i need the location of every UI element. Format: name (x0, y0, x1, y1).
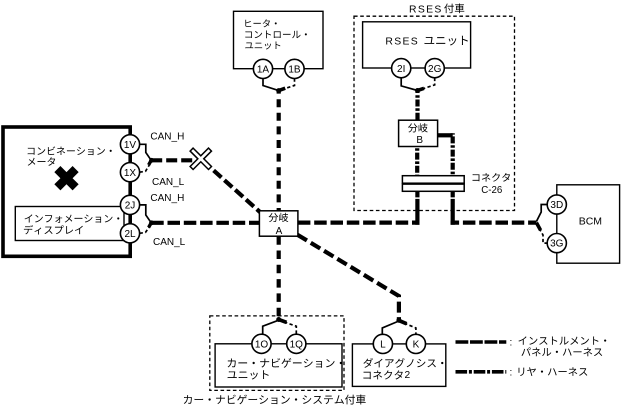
svg-text:3D: 3D (550, 200, 563, 211)
pin 2J (120, 195, 139, 214)
trunk branch-A to connector C-26 left pin (horizontal) (298, 221, 420, 225)
junction stub toward K (399, 321, 407, 324)
rear-harness trunk RSES junction to branch-B (415, 91, 419, 121)
wire BCM junction to 3D (solid) (536, 205, 547, 222)
wire BCM junction to 3G (dashed) (536, 224, 547, 244)
wire 2I to RSES junction (solid) (401, 78, 417, 91)
legend label rear harness (510, 367, 588, 378)
branch-B right stub (solid) (438, 133, 453, 137)
svg-text:2I: 2I (397, 64, 405, 75)
svg-text:CAN_L: CAN_L (153, 237, 186, 248)
pin 1O (252, 334, 271, 353)
rear-harness trunk C-26 right pin down to main line (451, 191, 455, 224)
trunk info display CAN junction to branch-A (horizontal) (151, 221, 259, 225)
node display CAN junction (149, 220, 154, 225)
trunk cut mark to branch-A (diagonal) (206, 163, 261, 212)
node car navigation junction (276, 317, 281, 322)
box RSES unit (363, 22, 471, 68)
node RSES junction (415, 88, 420, 93)
rear-harness trunk C-26 left pin down to main line (415, 191, 419, 224)
pin 1Q (287, 334, 306, 353)
wire 1A to heater junction (CAN_H solid) (263, 79, 279, 91)
svg-text:K: K (413, 340, 420, 351)
trunk combination meter CAN junction to cut mark (horizontal) (151, 158, 194, 162)
label connector C-26 (472, 173, 510, 196)
wire diagnosis junction to L (solid) (382, 321, 399, 334)
svg-text::: : (510, 338, 513, 349)
svg-text:2L: 2L (124, 229, 136, 240)
dashed region RSES-equipped cars (354, 16, 515, 210)
svg-text:1X: 1X (124, 168, 137, 179)
svg-text:RSES: RSES (409, 4, 443, 15)
trunk branch-A to car navigation junction (vertical) (277, 235, 281, 320)
svg-text:BCM: BCM (579, 216, 602, 228)
wire 2J to display junction (CAN_H solid) (140, 205, 152, 223)
rear-harness trunk branch-B stub down to connector C-26 (451, 133, 455, 176)
svg-text:1B: 1B (288, 65, 301, 76)
trunk branch-A to diagnosis junction (diagonal) (298, 235, 399, 321)
svg-text:3G: 3G (550, 239, 564, 250)
pin L (373, 334, 392, 353)
label information display (24, 214, 119, 234)
pin 3G (547, 234, 566, 253)
box BCM (557, 185, 620, 263)
pin 2L (120, 224, 139, 243)
svg-text:CAN_H: CAN_H (150, 193, 184, 204)
junction stub toward 1B (279, 88, 286, 90)
svg-text:1O: 1O (255, 339, 269, 350)
label diagnosis connector 2 (363, 358, 443, 381)
svg-text:RSES: RSES (385, 36, 419, 47)
box diagnosis connector 2 (352, 344, 445, 387)
label car navigation unit (228, 358, 342, 379)
pin 1A (253, 59, 272, 78)
pin 2G (425, 59, 444, 78)
box information display (15, 207, 124, 241)
wire 2G to RSES junction (dashed) (418, 78, 435, 91)
harness cut X symbol (182, 140, 219, 177)
svg-text:2G: 2G (428, 64, 442, 75)
svg-text:L: L (380, 340, 386, 351)
label combination meter (28, 146, 112, 165)
svg-text:1A: 1A (257, 65, 270, 76)
box branch A (259, 211, 298, 236)
box car navigation unit (215, 344, 342, 387)
dashed region car navigation system cars (210, 316, 344, 391)
node diagnosis junction (396, 318, 401, 323)
label RSES unit (385, 36, 467, 48)
legend sample instrument panel harness (456, 340, 507, 344)
pin 3D (547, 195, 566, 214)
svg-text::: : (510, 367, 513, 378)
pin 1V (120, 135, 139, 154)
no-connection X mark (48, 160, 84, 196)
label heater control unit (245, 19, 307, 49)
svg-text:CAN_L: CAN_L (152, 177, 185, 188)
wire 1B to heater junction (CAN_L dashed) (279, 79, 295, 91)
wire navi junction to 1O (solid) (263, 320, 279, 334)
svg-text:B: B (416, 135, 423, 146)
node heater junction (276, 88, 281, 93)
connector C-26 symbol (402, 176, 464, 192)
pin 1B (285, 59, 304, 78)
svg-text:CAN_H: CAN_H (150, 132, 184, 143)
junction stub toward 1X (149, 160, 152, 165)
label branch B (408, 123, 428, 146)
junction stub toward 2G (418, 88, 425, 90)
junction stub toward 3G (536, 223, 540, 231)
trunk connector C-26 right pin to BCM junction (horizontal) (451, 221, 537, 225)
svg-text:2J: 2J (125, 201, 136, 212)
wire 1V to meter junction (CAN_H solid) (140, 144, 152, 160)
box combination meter (bold) (3, 127, 130, 256)
wire 1X to meter junction (CAN_L dashed) (140, 162, 152, 172)
svg-text:1V: 1V (124, 140, 137, 151)
legend sample rear harness (456, 370, 507, 374)
box heater control unit (234, 11, 324, 68)
label car navigation system cars (184, 395, 366, 405)
svg-text:2: 2 (405, 370, 411, 381)
rear-harness trunk branch-B bottom to connector C-26 (415, 147, 419, 176)
junction stub toward 1Q (279, 320, 287, 323)
junction stub toward 2L (149, 223, 152, 228)
box branch B (399, 120, 438, 146)
node meter CAN junction (149, 158, 154, 163)
wire diagnosis junction to K (dashed) (399, 321, 416, 334)
svg-text:1Q: 1Q (290, 339, 304, 350)
legend label instrument panel harness (510, 336, 607, 356)
pin 2I (392, 59, 411, 78)
trunk heater junction to branch-A (vertical) (277, 91, 281, 211)
pin K (406, 334, 425, 353)
wire navi junction to 1Q (dashed) (279, 320, 297, 334)
svg-text:C-26: C-26 (481, 185, 502, 196)
label RSES-equipped cars (409, 3, 464, 15)
pin 1X (120, 163, 139, 182)
svg-text:A: A (276, 226, 283, 237)
wire 2L to display junction (CAN_L dashed) (140, 224, 152, 233)
label branch A (269, 213, 289, 237)
